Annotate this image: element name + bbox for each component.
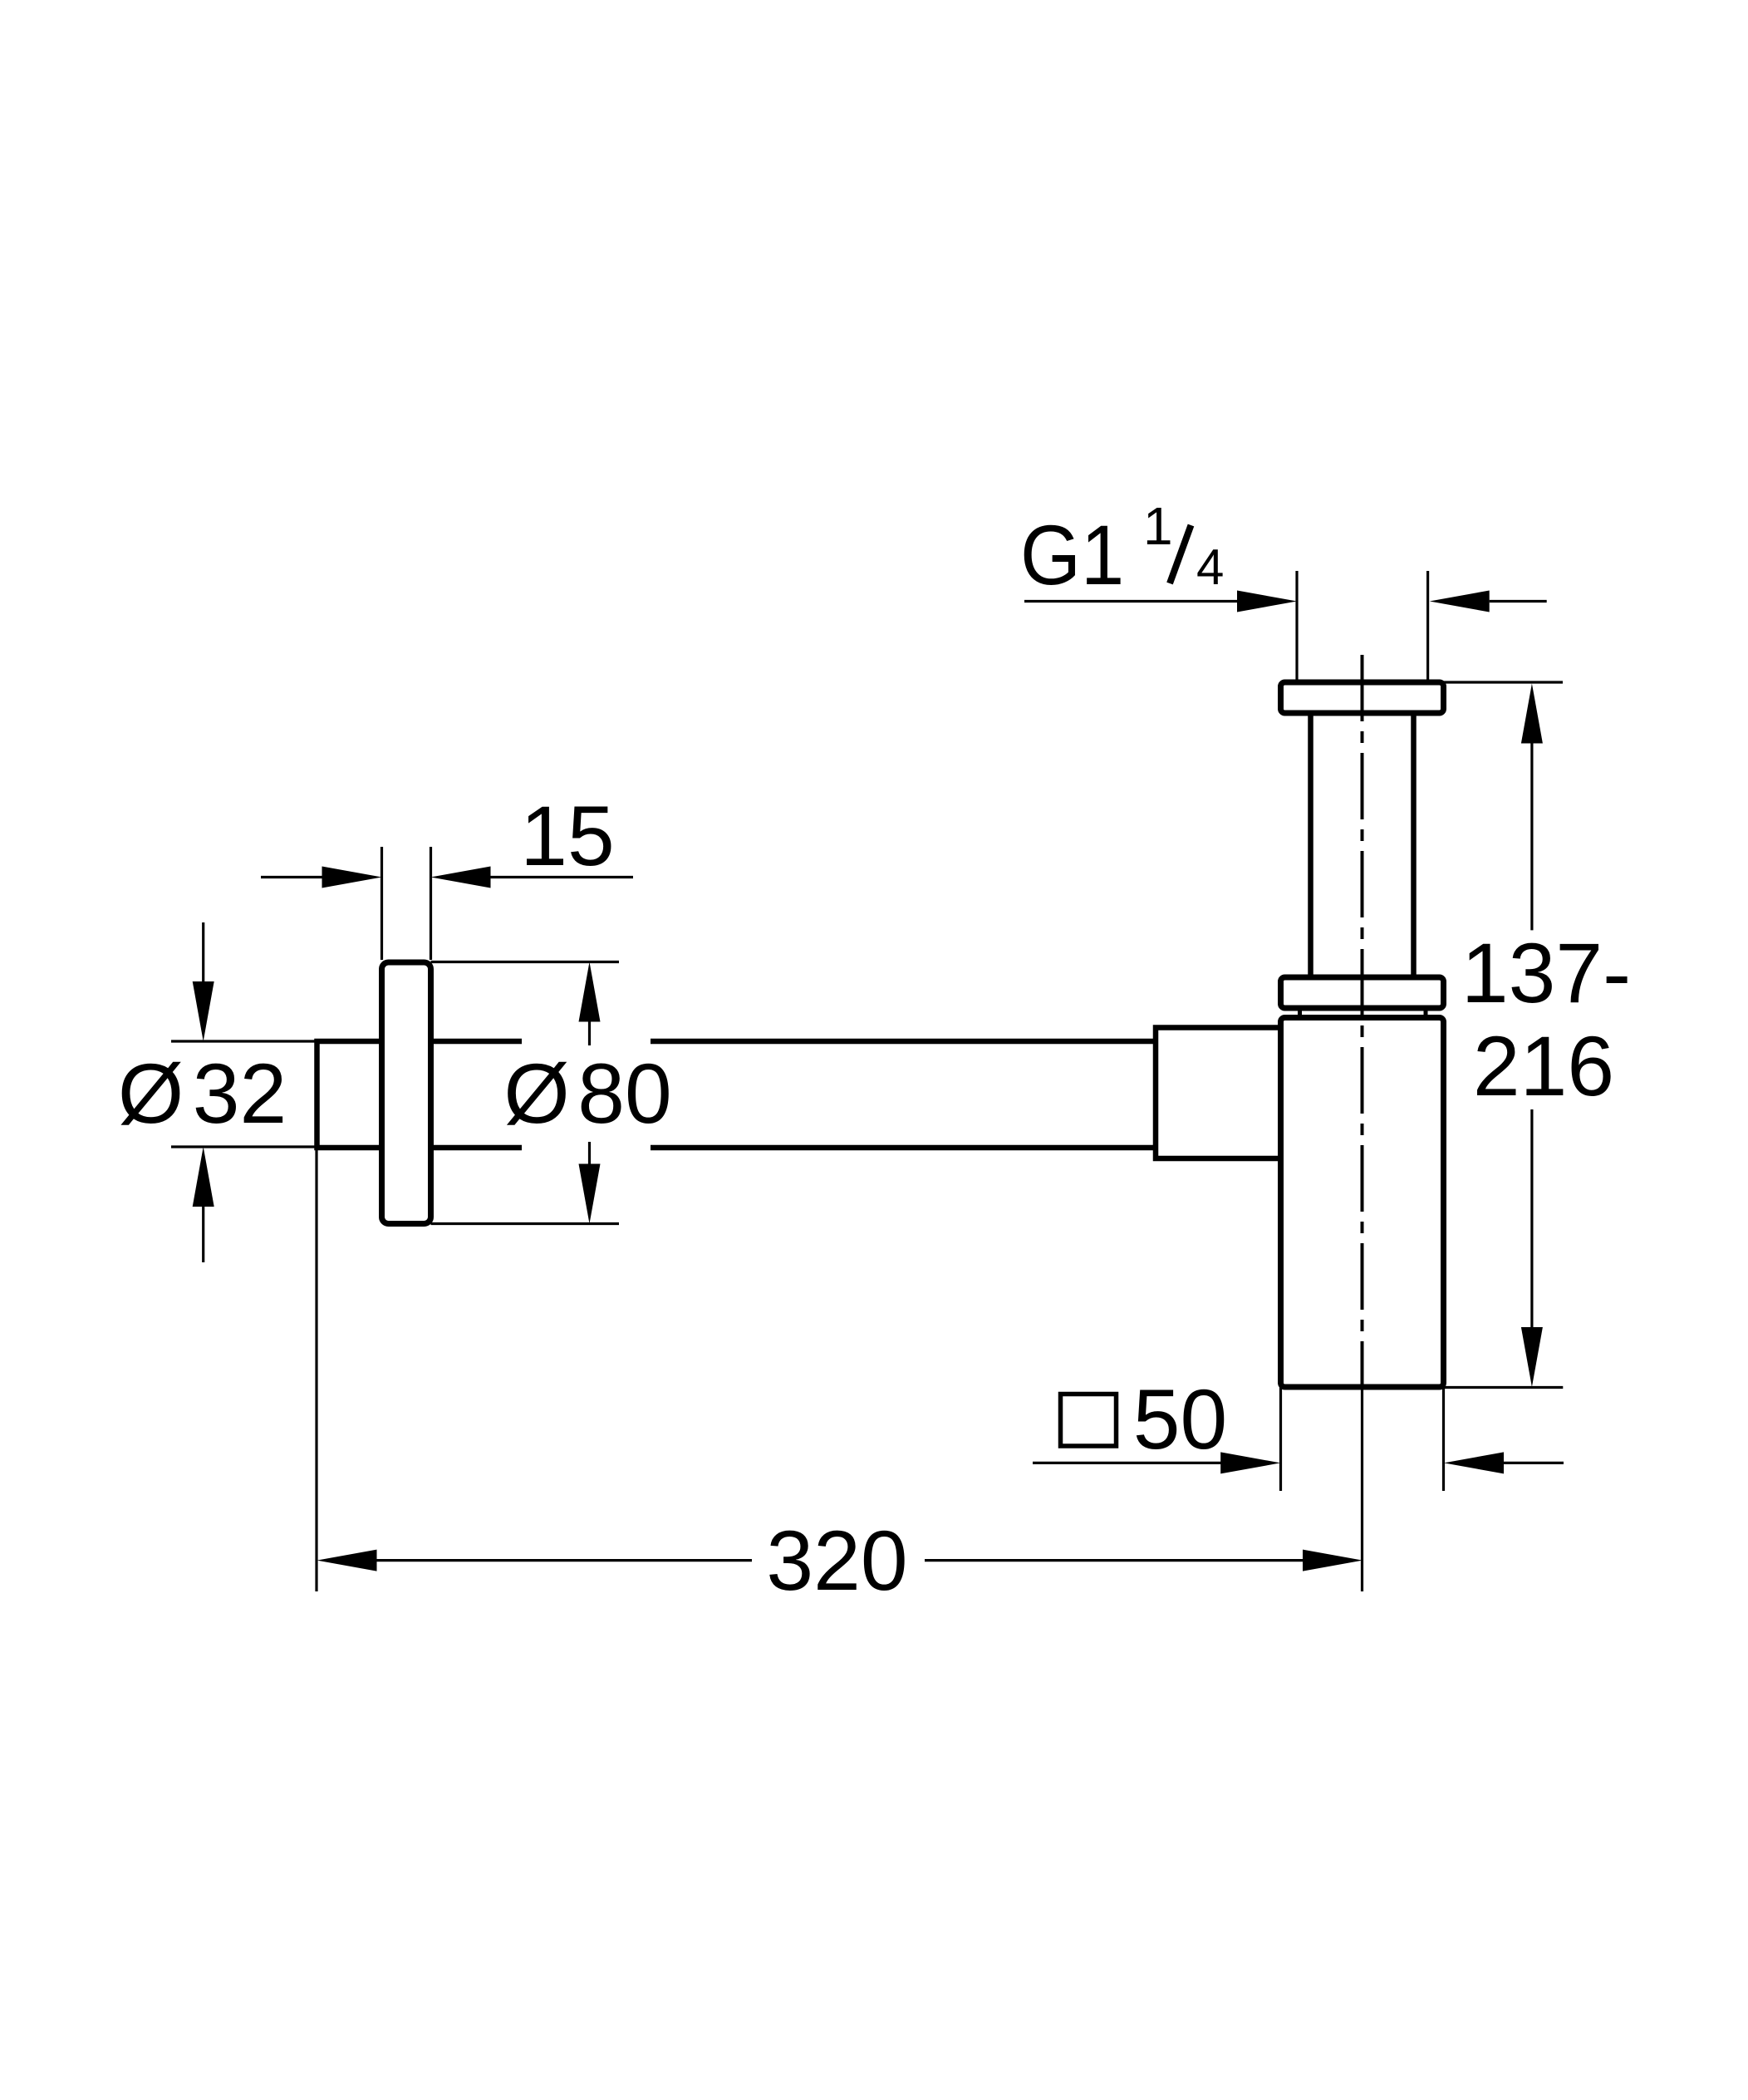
dim 137-216 down arrow bbox=[1530, 1109, 1533, 1330]
dim dia80 down arrow bbox=[588, 1142, 591, 1167]
washer stubs bbox=[1300, 1008, 1426, 1019]
svg-text:320: 320 bbox=[766, 1513, 907, 1608]
dim G1 arrow left-pointing bbox=[1430, 591, 1490, 612]
dim 137-216 up arrow bbox=[1521, 684, 1543, 744]
dim 50 line left bbox=[1033, 1462, 1221, 1464]
horizontal pipe top wire bbox=[431, 1039, 1156, 1045]
svg-text:4: 4 bbox=[1196, 539, 1224, 595]
svg-text:1: 1 bbox=[1143, 496, 1173, 556]
dim 15 line right bbox=[490, 876, 633, 878]
dim dia80 up arrow bbox=[579, 962, 601, 1022]
dim 320 line right bbox=[925, 1559, 1304, 1561]
svg-text:Ø: Ø bbox=[503, 1046, 569, 1141]
dim 320 arrow right-pointing bbox=[1303, 1550, 1363, 1571]
dim G1 line left bbox=[1024, 600, 1238, 602]
dim 15 arrow right-pointing bbox=[322, 867, 382, 888]
svg-text:G1: G1 bbox=[1020, 507, 1124, 602]
dim 15 ext lines bbox=[382, 847, 431, 960]
dim 320 arrow left-pointing bbox=[317, 1550, 377, 1571]
svg-text:80: 80 bbox=[577, 1046, 671, 1141]
dim 15 line left bbox=[261, 876, 324, 878]
dim 50 arrow left-pointing bbox=[1444, 1452, 1504, 1473]
vertical inlet pipe walls bbox=[1311, 713, 1414, 977]
svg-text:32: 32 bbox=[193, 1046, 287, 1141]
svg-text:50: 50 bbox=[1133, 1372, 1227, 1467]
svg-text:137-: 137- bbox=[1461, 926, 1631, 1020]
center line solid lower bbox=[1361, 1388, 1363, 1591]
wall pipe stub bbox=[317, 1041, 382, 1148]
dim 15 arrow left-pointing bbox=[431, 867, 491, 888]
dim 137-216 ext top bbox=[1443, 681, 1564, 683]
dim 320 ext line left bbox=[315, 1150, 317, 1591]
dim 320 line left bbox=[377, 1559, 753, 1561]
dim dia80 ext lines bbox=[431, 962, 620, 1224]
horizontal pipe bottom wire bbox=[431, 1145, 1156, 1151]
upper flange bbox=[1281, 682, 1444, 713]
dim dia32 ext lines bbox=[171, 1041, 317, 1147]
dim dia32 up arrow bbox=[193, 1147, 214, 1207]
wall flange disc bbox=[382, 962, 431, 1224]
center line dashed bbox=[1361, 655, 1364, 1388]
dim 137-216 ext bottom bbox=[1444, 1386, 1564, 1389]
lower flange nut bbox=[1281, 977, 1444, 1008]
dim G1 arrow right-pointing bbox=[1237, 591, 1297, 612]
dim dia32 down arrow bbox=[202, 922, 204, 985]
trap body cup bbox=[1281, 1018, 1444, 1388]
svg-text:Ø: Ø bbox=[118, 1046, 184, 1141]
dim G1 line right bbox=[1490, 600, 1547, 602]
dim 50 line right bbox=[1504, 1462, 1564, 1464]
dim 50 ext lines bbox=[1281, 1387, 1444, 1491]
dim G1 ext lines bbox=[1297, 571, 1428, 681]
svg-text:216: 216 bbox=[1473, 1019, 1614, 1114]
dim 50 arrow right-pointing bbox=[1220, 1452, 1280, 1473]
dim square50 symbol bbox=[1061, 1394, 1117, 1447]
connector block bbox=[1156, 1028, 1284, 1159]
svg-text:15: 15 bbox=[520, 789, 614, 883]
